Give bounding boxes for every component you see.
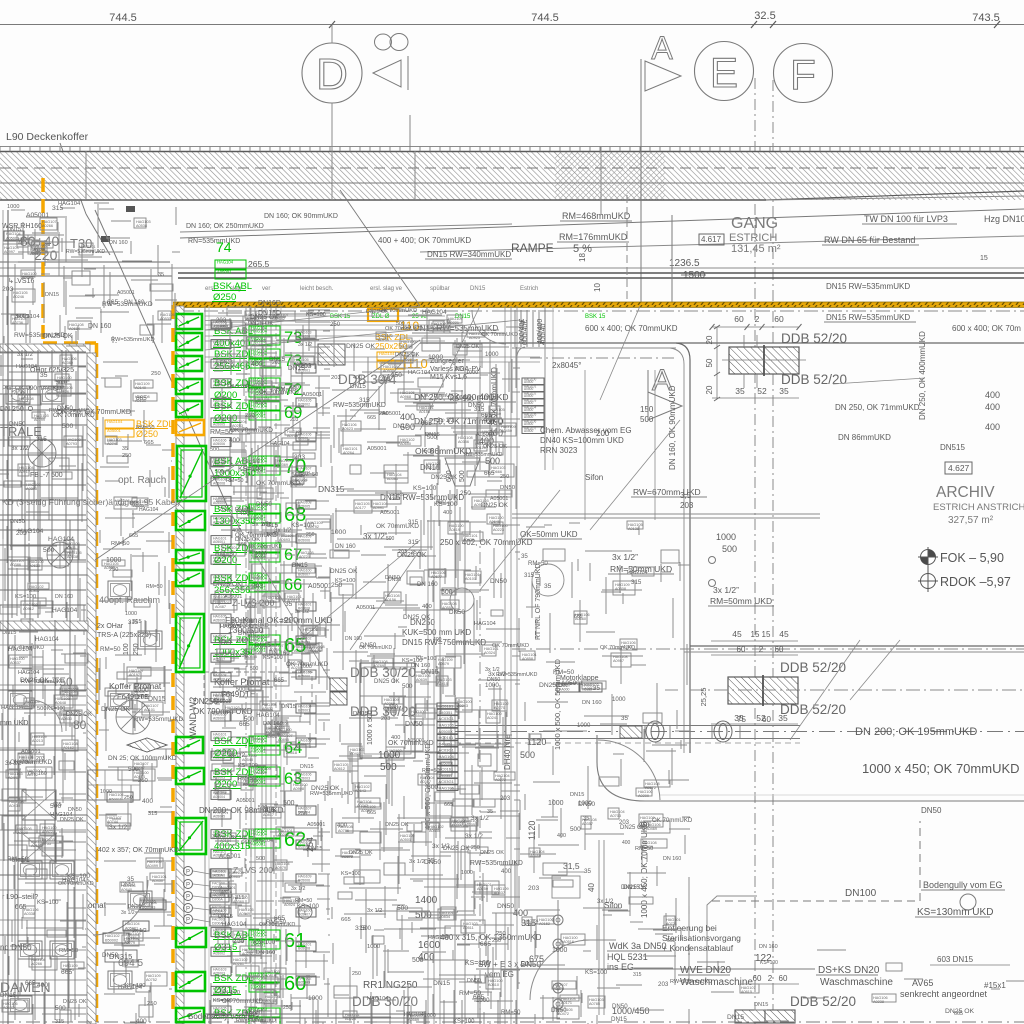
svg-text:315: 315 xyxy=(55,1019,64,1024)
svg-text:RM=50: RM=50 xyxy=(459,990,481,997)
svg-text:A0246: A0246 xyxy=(13,295,24,299)
pipe runs right middle xyxy=(512,513,820,515)
svg-text:500: 500 xyxy=(236,687,245,693)
svg-text:r L90–steil?: r L90–steil? xyxy=(2,894,38,901)
svg-text:RM=50: RM=50 xyxy=(146,584,163,590)
svg-text:A0639: A0639 xyxy=(416,678,427,682)
svg-text:1000: 1000 xyxy=(367,944,381,950)
svg-text:250: 250 xyxy=(245,413,255,419)
svg-text:2: 2 xyxy=(759,645,764,654)
svg-text:250: 250 xyxy=(233,938,245,945)
svg-text:1000: 1000 xyxy=(466,370,478,376)
svg-text:A0997: A0997 xyxy=(4,250,15,254)
svg-text:A0643: A0643 xyxy=(355,789,366,793)
svg-text:665: 665 xyxy=(25,980,36,987)
svg-text:DDB 52/20: DDB 52/20 xyxy=(781,331,847,346)
dense linework clutter xyxy=(0,346,95,1024)
svg-text:A0908: A0908 xyxy=(293,787,304,791)
svg-text:leicht besch.: leicht besch. xyxy=(300,286,334,292)
DN200 pipe run xyxy=(455,725,800,727)
DDB dims upper xyxy=(712,326,799,328)
svg-text:A0261: A0261 xyxy=(233,962,244,966)
svg-text:400: 400 xyxy=(433,637,442,643)
svg-text:DN50: DN50 xyxy=(468,402,484,409)
svg-text:DN25 OK: DN25 OK xyxy=(395,352,420,358)
svg-text:+ Kondensatablauf: + Kondensatablauf xyxy=(662,943,734,953)
svg-text:4.617: 4.617 xyxy=(701,235,722,244)
svg-text:203: 203 xyxy=(380,376,391,383)
svg-text:RR1/NG250: RR1/NG250 xyxy=(363,980,418,991)
svg-text:FBL-7 500: FBL-7 500 xyxy=(30,472,63,479)
svg-text:KS=100: KS=100 xyxy=(341,871,361,877)
svg-text:WVE DN20: WVE DN20 xyxy=(680,965,732,976)
gridline E dashdot xyxy=(754,78,756,1024)
svg-text:Koffer Promat: Koffer Promat xyxy=(109,681,162,691)
svg-text:A05005: A05005 xyxy=(213,815,225,819)
BSK box y379 xyxy=(176,379,202,394)
svg-text:50: 50 xyxy=(705,358,714,367)
svg-text:A05001: A05001 xyxy=(382,411,401,417)
svg-text:DN50: DN50 xyxy=(449,609,465,616)
svg-text:A05005: A05005 xyxy=(213,619,225,623)
svg-text:RW=535mmUKD: RW=535mmUKD xyxy=(310,791,353,797)
manifold circles bottom mid xyxy=(553,915,563,925)
svg-text:OK 70mmUKD: OK 70mmUKD xyxy=(600,645,635,651)
svg-text:DN 160: DN 160 xyxy=(417,581,438,588)
svg-text:B50002: B50002 xyxy=(105,939,118,943)
svg-text:A0819: A0819 xyxy=(449,528,460,532)
svg-text:A0677: A0677 xyxy=(431,575,442,579)
svg-text:A0968: A0968 xyxy=(400,395,411,399)
svg-text:3x 1/2: 3x 1/2 xyxy=(245,459,260,465)
svg-text:32.5: 32.5 xyxy=(754,10,775,22)
svg-text:15: 15 xyxy=(762,630,771,639)
svg-text:35: 35 xyxy=(621,715,628,722)
svg-text:1000: 1000 xyxy=(331,529,346,536)
svg-text:DN25 OK: DN25 OK xyxy=(374,679,400,685)
svg-text:60: 60 xyxy=(774,314,784,324)
svg-text:2x OHar: 2x OHar xyxy=(97,623,124,630)
svg-text:A05002: A05002 xyxy=(213,364,225,368)
svg-text:3x 1/2: 3x 1/2 xyxy=(437,417,455,424)
svg-text:omat: omat xyxy=(88,901,107,910)
svg-text:665: 665 xyxy=(367,415,376,421)
svg-text:A0213: A0213 xyxy=(32,739,43,743)
svg-text:203: 203 xyxy=(454,366,465,373)
svg-text:A0901: A0901 xyxy=(65,546,76,550)
svg-text:DN 160: DN 160 xyxy=(88,323,112,330)
green box small near 370,315 xyxy=(368,309,398,321)
svg-text:D40351: D40351 xyxy=(439,773,454,778)
svg-text:B05003: B05003 xyxy=(298,777,310,781)
svg-text:A0308: A0308 xyxy=(615,587,626,591)
svg-text:1000: 1000 xyxy=(106,557,121,564)
svg-text:A0422: A0422 xyxy=(463,538,474,542)
BSK box y614 xyxy=(176,614,204,672)
svg-text:A05008: A05008 xyxy=(213,481,225,485)
svg-text:A05001: A05001 xyxy=(242,1009,264,1016)
bottom-right room wall xyxy=(597,735,1024,801)
svg-text:A0752: A0752 xyxy=(146,978,157,982)
svg-text:A0500: A0500 xyxy=(524,401,533,405)
svg-text:A0324: A0324 xyxy=(484,651,495,655)
svg-text:RDOK –5,97: RDOK –5,97 xyxy=(940,575,1011,589)
svg-text:HC0161: HC0161 xyxy=(439,735,454,740)
svg-text:DN 160: DN 160 xyxy=(263,721,284,727)
svg-text:HAG104: HAG104 xyxy=(251,352,268,357)
svg-text:A0282: A0282 xyxy=(278,833,289,837)
svg-text:DN25 OK: DN25 OK xyxy=(483,444,507,450)
svg-text:DS+KS DN20: DS+KS DN20 xyxy=(818,965,880,976)
svg-text:1000: 1000 xyxy=(476,997,490,1004)
svg-text:DN15: DN15 xyxy=(45,292,59,298)
svg-text:250: 250 xyxy=(109,567,118,573)
svg-text:P: P xyxy=(186,870,190,876)
svg-text:DN25 OK: DN25 OK xyxy=(330,568,358,575)
svg-text:OK=50mm UKD: OK=50mm UKD xyxy=(520,530,578,539)
svg-text:B05003: B05003 xyxy=(298,437,310,441)
svg-text:DN50: DN50 xyxy=(256,501,272,508)
svg-text:Hzg DN10: Hzg DN10 xyxy=(984,214,1024,224)
orange BSK label left xyxy=(105,420,134,428)
svg-text:A0225: A0225 xyxy=(255,401,266,405)
svg-text:3x 1/2: 3x 1/2 xyxy=(298,342,312,348)
svg-text:1000: 1000 xyxy=(461,870,473,876)
svg-text:B05000: B05000 xyxy=(298,335,310,339)
svg-text:315: 315 xyxy=(408,539,419,546)
BSK box y356 xyxy=(176,356,202,371)
svg-text:A0500: A0500 xyxy=(524,408,533,412)
svg-text:500: 500 xyxy=(283,800,295,807)
svg-text:DN515: DN515 xyxy=(940,443,965,452)
svg-text:B05009: B05009 xyxy=(298,981,310,985)
svg-text:RW DN 65 für Bestand: RW DN 65 für Bestand xyxy=(824,235,915,245)
svg-text:DDB 52/20: DDB 52/20 xyxy=(780,702,846,717)
svg-text:400: 400 xyxy=(388,704,399,711)
svg-text:665: 665 xyxy=(274,915,285,922)
svg-text:A05001: A05001 xyxy=(217,270,232,275)
svg-text:RM=50: RM=50 xyxy=(501,1010,521,1016)
BSK box y401 xyxy=(176,401,202,417)
svg-text:A05001: A05001 xyxy=(213,932,225,936)
svg-text:3x 1/2: 3x 1/2 xyxy=(367,908,382,914)
svg-text:1000: 1000 xyxy=(612,696,626,703)
svg-text:B05004: B05004 xyxy=(298,811,310,815)
door arcs bottom xyxy=(530,940,590,1000)
svg-text:A05002: A05002 xyxy=(213,756,225,760)
svg-text:A0500: A0500 xyxy=(524,387,533,391)
svg-text:35: 35 xyxy=(487,809,493,815)
BSK box y818 xyxy=(176,818,206,854)
svg-text:A0721: A0721 xyxy=(299,555,310,559)
svg-text:DN 250, O: DN 250, O xyxy=(0,406,34,413)
lower right wall horizontal xyxy=(690,645,1024,647)
svg-text:ver: ver xyxy=(262,286,270,292)
svg-text:400: 400 xyxy=(501,868,512,875)
svg-text:B05008: B05008 xyxy=(298,947,310,951)
svg-text:A0511: A0511 xyxy=(463,926,474,930)
hatched wall strip left xyxy=(0,344,90,353)
svg-text:500: 500 xyxy=(396,321,405,327)
svg-text:OK 70mmUKD: OK 70mmUKD xyxy=(359,645,392,651)
svg-text:OK 70mmUKD: OK 70mmUKD xyxy=(492,643,529,649)
svg-text:100: 100 xyxy=(123,643,130,655)
svg-text:600 x 400; OK 70m: 600 x 400; OK 70m xyxy=(952,324,1021,333)
svg-text:ARCHIV: ARCHIV xyxy=(936,484,995,501)
svg-text:B05001: B05001 xyxy=(298,709,310,713)
svg-text:DN 160: DN 160 xyxy=(256,950,275,956)
svg-text:DN 160: DN 160 xyxy=(335,543,356,550)
left room partition walls xyxy=(7,210,9,1024)
svg-text:HAG106: HAG106 xyxy=(439,723,455,728)
svg-text:250: 250 xyxy=(496,931,507,937)
svg-text:DN50: DN50 xyxy=(500,485,516,491)
svg-text:A0266: A0266 xyxy=(42,224,53,228)
svg-text:DN25 OK: DN25 OK xyxy=(250,314,279,321)
X fixtures xyxy=(22,790,56,820)
valve symbols on DN200 xyxy=(646,721,664,742)
t-symbol circles xyxy=(298,905,312,919)
svg-text:A0138: A0138 xyxy=(628,527,639,531)
svg-text:DDB 52/20: DDB 52/20 xyxy=(790,994,856,1009)
wall inner faces xyxy=(204,306,206,1024)
svg-text:DN25 OK: DN25 OK xyxy=(366,309,389,315)
svg-text:A0499: A0499 xyxy=(147,864,158,868)
svg-text:A0682: A0682 xyxy=(115,503,126,507)
svg-text:mm UKD: mm UKD xyxy=(0,720,28,727)
flag 8 xyxy=(373,60,401,87)
svg-text:250: 250 xyxy=(330,321,341,328)
svg-text:L90 Deckenkoffer: L90 Deckenkoffer xyxy=(6,131,89,143)
svg-text:203: 203 xyxy=(500,795,511,802)
archiv wall corner xyxy=(676,343,690,360)
svg-text:400: 400 xyxy=(443,510,452,516)
svg-text:OK 70mmUKD: OK 70mmUKD xyxy=(53,412,95,419)
svg-text:DN25 OK: DN25 OK xyxy=(397,552,427,559)
svg-text:400: 400 xyxy=(422,604,433,610)
svg-text:DN 160: DN 160 xyxy=(411,663,430,669)
svg-text:665: 665 xyxy=(274,678,285,684)
svg-text:402 x 357; OK 70mmUKD: 402 x 357; OK 70mmUKD xyxy=(98,847,179,854)
svg-text:35: 35 xyxy=(122,446,128,452)
svg-text:B05001: B05001 xyxy=(298,369,310,373)
svg-text:HAG104: HAG104 xyxy=(408,370,431,376)
mid long diagonals xyxy=(205,306,420,330)
svg-text:A0703: A0703 xyxy=(610,814,621,818)
svg-text:DN15: DN15 xyxy=(623,884,640,891)
svg-text:A05001: A05001 xyxy=(561,680,584,687)
svg-text:A0500: A0500 xyxy=(524,429,533,433)
svg-text:A0209: A0209 xyxy=(638,794,649,798)
svg-text:A0550: A0550 xyxy=(411,714,422,718)
svg-text:A0500X: A0500X xyxy=(439,729,454,734)
svg-text:ins EG: ins EG xyxy=(607,962,634,972)
svg-text:A05004: A05004 xyxy=(213,795,225,799)
svg-text:500: 500 xyxy=(128,766,139,773)
svg-text:A0914: A0914 xyxy=(243,783,254,787)
riser label stacks xyxy=(211,320,231,329)
svg-text:OK 70mmUKD: OK 70mmUKD xyxy=(230,427,273,434)
svg-text:603 DN15: 603 DN15 xyxy=(937,955,974,964)
svg-text:20: 20 xyxy=(705,385,714,394)
svg-text:DN50: DN50 xyxy=(405,721,423,728)
svg-text:P: P xyxy=(186,895,190,901)
svg-text:254: 254 xyxy=(305,837,315,852)
svg-text:250: 250 xyxy=(147,1001,157,1007)
svg-text:KS=100: KS=100 xyxy=(306,312,326,318)
svg-text:500: 500 xyxy=(62,423,73,430)
svg-text:DDB 52/20: DDB 52/20 xyxy=(781,372,847,387)
svg-text:DN15 RW=535mmUKD: DN15 RW=535mmUKD xyxy=(826,313,910,322)
svg-text:A05006: A05006 xyxy=(213,638,225,642)
svg-text:OK 70mmUKD: OK 70mmUKD xyxy=(259,922,295,928)
svg-text:A0501: A0501 xyxy=(400,838,411,842)
funnel duct xyxy=(445,458,480,486)
svg-text:500: 500 xyxy=(37,706,47,712)
svg-text:DN 160, OK 90mmUKD: DN 160, OK 90mmUKD xyxy=(668,385,677,470)
BSK box y314 xyxy=(176,314,202,329)
svg-text:KS=100: KS=100 xyxy=(434,501,458,508)
svg-text:500: 500 xyxy=(43,547,55,554)
svg-text:400: 400 xyxy=(251,361,263,368)
svg-text:665: 665 xyxy=(421,420,432,427)
svg-text:KS=100: KS=100 xyxy=(213,998,233,1004)
svg-text:75: 75 xyxy=(737,715,746,724)
grid bubble F xyxy=(774,44,833,103)
svg-text:DN15: DN15 xyxy=(148,696,166,703)
svg-text:A05003: A05003 xyxy=(213,775,225,779)
BSK box y768 xyxy=(176,768,204,784)
svg-text:RM=50: RM=50 xyxy=(136,425,155,431)
svg-text:B05005: B05005 xyxy=(298,505,310,509)
svg-text:A0736: A0736 xyxy=(12,321,23,325)
svg-text:E: E xyxy=(710,49,738,96)
svg-text:RW=535mmUKD: RW=535mmUKD xyxy=(670,979,712,985)
svg-text:A0650: A0650 xyxy=(400,442,411,446)
svg-text:500: 500 xyxy=(55,1005,66,1012)
svg-text:A05002: A05002 xyxy=(213,952,225,956)
svg-text:HAG104: HAG104 xyxy=(18,670,39,676)
svg-text:A0238: A0238 xyxy=(873,1000,884,1004)
dark label stack xyxy=(437,703,458,709)
svg-text:RRN 3023: RRN 3023 xyxy=(540,446,578,455)
svg-text:A05004: A05004 xyxy=(213,991,225,995)
svg-text:1000 x 450; OK 70mmUKD: 1000 x 450; OK 70mmUKD xyxy=(640,821,649,918)
svg-text:3x 1/2: 3x 1/2 xyxy=(121,910,135,916)
svg-text:DN50: DN50 xyxy=(121,882,135,888)
svg-text:ESTRICH ANSTRICH: ESTRICH ANSTRICH xyxy=(933,502,1024,513)
svg-text:HAG104: HAG104 xyxy=(107,419,123,424)
svg-text:400: 400 xyxy=(232,528,241,534)
svg-text:spülbar: spülbar xyxy=(430,286,450,292)
svg-text:DN15: DN15 xyxy=(421,669,439,676)
svg-text:400: 400 xyxy=(337,822,348,829)
svg-text:500: 500 xyxy=(441,589,453,596)
svg-text:665: 665 xyxy=(667,938,676,944)
svg-text:1000: 1000 xyxy=(378,750,401,761)
svg-text:DN15: DN15 xyxy=(570,792,584,798)
svg-text:665: 665 xyxy=(262,522,272,528)
svg-text:315: 315 xyxy=(631,579,642,586)
door arc left xyxy=(30,700,62,732)
svg-text:B50011: B50011 xyxy=(109,798,122,802)
svg-text:B05004: B05004 xyxy=(298,471,310,475)
svg-text:RW=535mmUKD: RW=535mmUKD xyxy=(111,337,155,343)
svg-text:DN15 RW=340mmUKD: DN15 RW=340mmUKD xyxy=(427,250,511,259)
svg-text:DN25 OK: DN25 OK xyxy=(385,822,409,828)
gridline F dashdot xyxy=(772,80,774,1024)
svg-text:60: 60 xyxy=(753,974,762,983)
svg-text:HAG104: HAG104 xyxy=(251,329,268,334)
svg-text:DN15: DN15 xyxy=(425,432,440,438)
pipe runs below barrier xyxy=(205,315,445,317)
svg-text:A0769: A0769 xyxy=(373,664,384,668)
svg-text:A0101: A0101 xyxy=(465,577,476,581)
svg-text:P: P xyxy=(186,918,190,924)
svg-text:665: 665 xyxy=(61,969,72,976)
BSK box y570 xyxy=(176,570,203,586)
svg-text:OK 70mmUKD: OK 70mmUKD xyxy=(481,332,518,338)
svg-text:A0655: A0655 xyxy=(389,497,400,501)
svg-text:KS=100: KS=100 xyxy=(453,1019,475,1024)
BSK box y511 xyxy=(176,511,205,530)
svg-text:D40351: D40351 xyxy=(439,741,454,746)
svg-text:3x 1/2: 3x 1/2 xyxy=(465,833,483,840)
svg-text:HAG106: HAG106 xyxy=(439,754,455,759)
BSK box y446 xyxy=(177,446,206,501)
svg-text:A05001: A05001 xyxy=(117,290,135,296)
svg-text:A0264: A0264 xyxy=(343,451,354,455)
svg-text:A0741: A0741 xyxy=(107,442,118,446)
svg-text:150: 150 xyxy=(640,405,654,414)
BSK box y928 xyxy=(176,928,206,947)
svg-text:DN50: DN50 xyxy=(456,395,471,401)
svg-text:RW=535mmUKD: RW=535mmUKD xyxy=(14,332,66,339)
svg-text:315: 315 xyxy=(148,811,157,817)
svg-text:DN50: DN50 xyxy=(921,806,942,815)
BSK box y333 xyxy=(176,333,202,350)
svg-text:265.5: 265.5 xyxy=(248,259,270,269)
svg-text:RM=50: RM=50 xyxy=(100,646,121,653)
svg-text:DN15: DN15 xyxy=(433,980,450,987)
washbasin grid corridor xyxy=(88,770,140,800)
svg-text:A05009: A05009 xyxy=(213,501,225,505)
svg-text:DN 160; OK 250mmUKD: DN 160; OK 250mmUKD xyxy=(186,223,264,230)
svg-text:500: 500 xyxy=(361,926,372,932)
top wall band hatched xyxy=(0,151,1024,200)
svg-text:3x 1/2: 3x 1/2 xyxy=(471,815,489,822)
svg-text:A0849: A0849 xyxy=(239,912,250,916)
svg-text:DN 86mmUKD: DN 86mmUKD xyxy=(838,433,891,442)
svg-text:A0793: A0793 xyxy=(66,442,77,446)
svg-text:743.5: 743.5 xyxy=(972,12,1000,24)
svg-text:500: 500 xyxy=(380,762,397,773)
svg-text:A0939: A0939 xyxy=(18,241,29,245)
svg-text:A0785: A0785 xyxy=(589,1002,600,1006)
svg-text:3x 1/2”: 3x 1/2” xyxy=(713,585,739,595)
svg-text:203: 203 xyxy=(36,756,45,762)
hatch blocks near DDB3020 xyxy=(330,678,347,691)
svg-text:DN 160: DN 160 xyxy=(663,856,681,862)
svg-text:DN315: DN315 xyxy=(109,952,132,961)
svg-text:DN40 KS=100mm UKD: DN40 KS=100mm UKD xyxy=(540,436,624,445)
svg-text:250: 250 xyxy=(122,453,131,459)
svg-text:OK 70mmUKD: OK 70mmUKD xyxy=(10,759,53,766)
svg-text:A05001: A05001 xyxy=(26,212,49,219)
svg-text:A0684: A0684 xyxy=(69,327,80,331)
DN100 dashed xyxy=(712,900,920,902)
svg-text:665: 665 xyxy=(144,440,155,446)
